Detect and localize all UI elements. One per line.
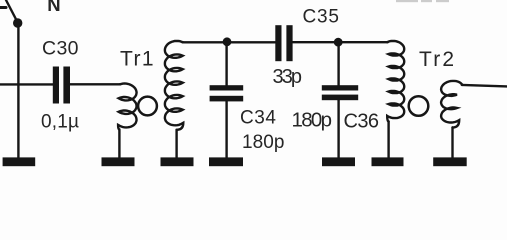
core circle Tr2 bbox=[409, 96, 429, 116]
svg-text:C35: C35 bbox=[303, 7, 340, 28]
svg-text:33p: 33p bbox=[273, 66, 303, 88]
svg-text:C36: C36 bbox=[344, 111, 380, 133]
wire C36 lower bbox=[337, 100, 339, 157]
wire C30 to Tr1 bbox=[70, 83, 120, 85]
wire C36 upper bbox=[337, 42, 339, 85]
transformer Tr1 primary winding bbox=[118, 84, 137, 130]
ground symbol 5 bbox=[322, 157, 355, 166]
cropped text remnant top edge bbox=[396, 0, 449, 2]
svg-text:N: N bbox=[47, 0, 60, 15]
transformer Tr2 primary winding bbox=[387, 41, 404, 122]
core circle Tr1 bbox=[138, 97, 157, 116]
node junction dot C34/top wire bbox=[223, 37, 232, 46]
wire top: Tr1 to C35 bbox=[182, 41, 275, 43]
wire Tr2 secondary lead bbox=[451, 128, 453, 158]
svg-text:Tr2: Tr2 bbox=[419, 48, 454, 71]
switch lever (diagonal) bbox=[6, 0, 18, 23]
wire top: C35 to Tr2 bbox=[293, 41, 388, 43]
capacitor C35 plates bbox=[275, 25, 281, 61]
svg-text:Tr1: Tr1 bbox=[120, 48, 154, 71]
svg-text:0,1µ: 0,1µ bbox=[41, 112, 79, 133]
transformer Tr2 secondary winding bbox=[441, 81, 462, 128]
capacitor C36 plates bbox=[322, 85, 358, 90]
capacitor C34 plates bbox=[210, 85, 244, 90]
node junction dot C36/top wire bbox=[334, 38, 343, 47]
ground symbol 4 bbox=[209, 157, 243, 166]
ground symbol 3 bbox=[161, 157, 194, 166]
wire left horizontal bbox=[0, 83, 53, 85]
ground symbol 1 bbox=[3, 157, 36, 166]
wire C34 upper bbox=[225, 42, 227, 86]
wire Tr1 primary lead bbox=[118, 130, 120, 158]
capacitor C30 plates bbox=[53, 67, 59, 104]
ground symbol 7 bbox=[433, 157, 467, 166]
ground symbol 6 bbox=[372, 157, 404, 166]
wire Tr2 primary lead bbox=[387, 122, 389, 158]
svg-text:180p: 180p bbox=[242, 132, 285, 153]
wire Tr1 secondary lead bbox=[175, 130, 177, 158]
wire N vertical bbox=[17, 23, 19, 158]
wire right horizontal bbox=[462, 85, 507, 87]
node junction dot at switch bbox=[13, 18, 22, 27]
svg-text:180p: 180p bbox=[292, 109, 333, 132]
ground symbol 2 bbox=[102, 157, 135, 166]
svg-text:C34: C34 bbox=[240, 108, 276, 129]
svg-text:C30: C30 bbox=[42, 38, 79, 60]
transformer Tr1 secondary winding bbox=[165, 41, 183, 130]
switch lever stub bbox=[0, 6, 6, 9]
wire C34 lower bbox=[225, 101, 227, 157]
